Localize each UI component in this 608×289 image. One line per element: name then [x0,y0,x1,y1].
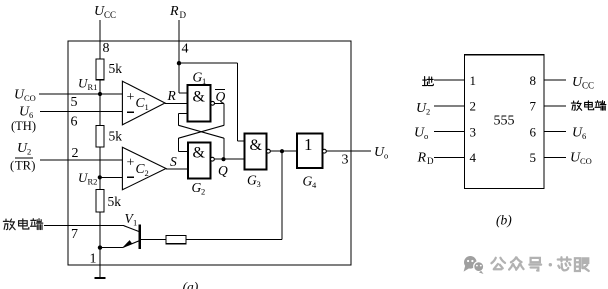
Rd label (b) [417,151,435,167]
svg-text:&: & [193,145,206,162]
Uo label [374,145,388,161]
svg-text:Q: Q [216,89,226,104]
svg-text:Q: Q [218,163,228,178]
node Q junction dot [221,157,225,161]
wire UR2 to C2 [100,177,123,179]
IC box 555 of diagram (b) [465,55,544,189]
svg-text:7: 7 [530,99,537,114]
pin 6 stub [544,131,566,133]
wire Rd to G1 reset input [179,63,188,93]
svg-text:(TH): (TH) [11,119,36,133]
svg-text:G: G [193,70,203,85]
svg-text:2: 2 [72,146,79,161]
G3 label [247,173,261,190]
U2 label [17,141,31,157]
pin 4 stub [434,156,465,158]
svg-text:(: ( [10,159,14,173]
ground [94,277,105,279]
svg-text:3: 3 [470,124,477,139]
resistor base R4 [166,235,186,243]
Uco label [14,88,36,104]
transistor V1 [68,224,141,249]
svg-text:+: + [127,156,135,171]
node Rd junction dot [177,61,181,65]
resistor R2 5k [96,125,104,147]
wire pin 7 discharge [44,225,68,227]
svg-text:5k: 5k [109,61,123,76]
node UR2 junction dot [98,175,102,179]
svg-text:5: 5 [530,150,537,165]
pin 3 stub [434,131,465,133]
pin 1 stub [434,79,465,81]
svg-text:2: 2 [145,168,149,178]
svg-text:CO: CO [24,93,36,103]
resistor R1 5k [96,59,104,80]
svg-text:1: 1 [90,252,97,267]
svg-text:1: 1 [145,102,149,112]
G3 output bubble [267,149,271,153]
svg-text:4: 4 [470,150,477,165]
svg-text:1: 1 [304,135,313,154]
svg-text:CC: CC [104,10,116,20]
wire G3 node down to base resistor [186,151,282,239]
svg-text:5k: 5k [109,129,123,144]
svg-text:R: R [417,151,427,166]
svg-text:o: o [424,131,428,141]
svg-text:(b): (b) [496,213,512,228]
node emitter pin1 junction dot [98,245,102,249]
wire C1 out to G1 R input [165,102,188,104]
G4 label [303,174,318,191]
V1 label [125,211,138,228]
nand gate G3 [245,133,267,169]
svg-text:2: 2 [27,147,31,157]
pin 7 stub [544,105,566,107]
UR1 label [78,76,97,93]
svg-text:R: R [167,88,177,103]
svg-text:&: & [193,89,206,106]
wire Rd down to node [178,20,180,63]
svg-text:o: o [384,151,388,161]
svg-text:5: 5 [71,95,78,110]
inverter gate G4 [297,134,323,169]
watermark text gongzhonghao xinyan [491,257,588,271]
wire Q feedback from G1 input [179,114,188,126]
svg-text:2: 2 [470,99,477,114]
svg-text:6: 6 [530,124,537,139]
op-amp comparator C2 [122,147,166,190]
nand gate G2 [188,142,210,178]
G1 output bubble [211,101,215,105]
svg-text:(a): (a) [183,280,199,289]
wire G2 out to G3 [214,158,244,160]
discharge terminal label (b) [571,101,606,111]
svg-text:CO: CO [580,156,592,166]
svg-text:2: 2 [201,187,205,197]
watermark wechat icon [464,256,484,274]
wire Qbar feedback diagonal [179,125,225,138]
svg-text:8: 8 [530,73,537,88]
svg-text:1: 1 [202,76,206,86]
svg-text:8: 8 [103,41,110,56]
wire pin 2 U2 [40,159,122,161]
wire Q feedback diagonal [179,125,225,138]
U6 label (b) [572,126,586,142]
svg-text:R1: R1 [88,82,98,92]
svg-text:D: D [180,10,187,20]
wire Qbar feedback to G2 input [215,103,225,125]
wire output pin 3 [326,150,371,152]
wire Qbar feedback into G2 [179,138,188,151]
Uo label (b) [414,126,428,142]
svg-text:D: D [427,156,434,166]
wire resistor to base of V1 [141,239,166,241]
svg-text:G: G [192,180,202,195]
wire Q feedback down to Q node [223,138,225,159]
wire C2 out to G2 S input [166,168,188,170]
svg-text:3: 3 [257,179,261,189]
svg-text:4: 4 [312,180,317,190]
svg-text:1: 1 [470,73,477,88]
pin 5 stub [544,156,566,158]
svg-text:G: G [303,174,313,189]
node UR1 junction dot [98,92,102,96]
Uco label (b) [570,151,592,167]
discharge terminal label (fang dian duan) [3,219,42,230]
svg-text:+: + [127,90,135,105]
Ucc label [94,4,116,20]
wire G3 to G4 [270,150,297,152]
Rd label [169,4,187,20]
wire R3 to ground [99,212,101,278]
svg-text:R2: R2 [88,177,98,187]
svg-text:2: 2 [426,107,430,117]
svg-text:6: 6 [582,131,586,141]
op-amp comparator C1 [122,81,165,125]
ground label (di) pin 1 [423,77,434,86]
svg-text:1: 1 [133,218,137,228]
U2 label (b) [416,101,430,117]
svg-text:6: 6 [71,115,78,130]
U6 label [19,105,33,121]
svg-text:CC: CC [582,81,594,91]
pin 8 stub [544,79,566,81]
nand gate G1 [188,85,211,122]
wire pin 6 U6 [40,111,122,113]
svg-text:3: 3 [342,153,349,168]
outer box of diagram (a) [68,41,351,265]
Ucc label (b) [572,75,594,91]
pin 2 stub [434,105,465,107]
svg-text:5k: 5k [108,194,122,209]
resistor R3 5k [96,190,104,213]
wire pin 5 Uco [39,93,122,95]
wire R2 to R3 [99,147,101,189]
wire Rd to G3 input [179,63,245,141]
(TR) label with overline [10,158,35,173]
UR2 label [78,170,97,187]
svg-text:TR: TR [15,159,32,173]
svg-text:): ) [31,159,35,173]
G2 label [192,180,206,197]
svg-text:&: & [250,137,263,154]
G2 output bubble [211,157,215,161]
G1 label [193,70,207,87]
svg-text:7: 7 [71,227,78,242]
svg-text:R: R [169,4,179,19]
G4 output bubble [323,149,327,153]
wire Ucc supply to pin 8 [99,20,101,59]
node G3 out junction dot [280,149,284,153]
svg-text:S: S [170,154,177,169]
Qbar label [215,89,226,104]
svg-text:555: 555 [494,114,515,129]
wire R1 to R2 [99,80,101,126]
svg-text:G: G [247,173,257,188]
svg-text:4: 4 [182,42,189,57]
